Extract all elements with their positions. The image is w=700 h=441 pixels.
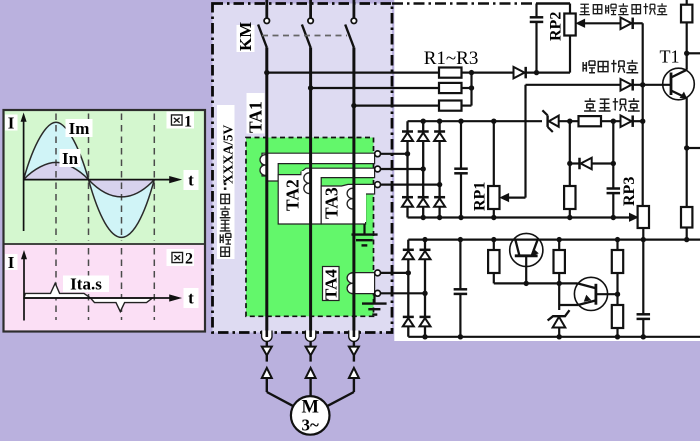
In area fill (light purple) <box>24 162 155 197</box>
overload rail / bridge1 top rail <box>408 120 543 122</box>
svg-text:Ita.s: Ita.s <box>70 275 102 294</box>
bridge2 lower diodes <box>403 316 414 319</box>
T1 collector rail + resistor R0 <box>686 0 688 70</box>
T3 base wire <box>596 293 618 295</box>
TA4 winding band <box>352 273 375 294</box>
TA4 label box <box>323 267 340 301</box>
KM linkage dashed <box>262 35 347 37</box>
bridge2 upper diodes <box>403 249 414 252</box>
short-circuit sense vertical <box>524 85 526 198</box>
resistor R7 column <box>558 240 560 250</box>
resistor R8 / R9 column <box>616 240 618 250</box>
R1-R3 common vertical <box>462 71 472 73</box>
tap to R2 <box>308 85 313 90</box>
svg-text:I: I <box>8 253 15 272</box>
svg-text:RP1: RP1 <box>472 182 489 211</box>
green transformer box <box>246 138 374 317</box>
bridge1 upper diodes <box>402 130 413 133</box>
chart1 dashed gridlines <box>55 114 57 241</box>
phase line L2 main <box>309 48 312 331</box>
TA3 coil bumps <box>347 188 353 209</box>
svg-text:TA3: TA3 <box>322 187 342 219</box>
R1-R3 resistors <box>439 68 462 78</box>
panel border <box>4 110 206 332</box>
svg-text:1: 1 <box>184 114 192 131</box>
bushing notches <box>262 331 272 342</box>
capacitor C4 <box>642 240 644 315</box>
aux diode VD4 row <box>569 121 571 186</box>
chart1 axes <box>23 119 25 231</box>
transducer box fill <box>213 4 393 333</box>
svg-text:t: t <box>188 171 194 190</box>
trip bus vertical <box>642 23 644 206</box>
svg-text:3~: 3~ <box>302 416 320 435</box>
chart1 labels <box>5 115 18 131</box>
label qianya-duanxiang-tuokou <box>579 4 589 14</box>
svg-text:XXXA/5V: XXXA/5V <box>220 125 235 184</box>
bridge2 bottom rail <box>408 336 700 338</box>
label guozai-tuokou <box>584 98 596 111</box>
svg-text:t: t <box>188 289 194 308</box>
bridge2 top rail <box>408 239 700 241</box>
TA2 coil bumps <box>304 173 310 194</box>
label tu-1 <box>171 115 182 125</box>
overload resistor R4 <box>579 116 602 126</box>
upper ground at TA3 <box>363 224 365 235</box>
capacitor C0 <box>535 4 537 18</box>
phase line L1 top <box>265 0 268 18</box>
transducer box dash-dot border <box>213 4 393 333</box>
phase feed dash-dot wire <box>392 2 537 4</box>
zener VZ1 <box>546 115 548 127</box>
svg-text:2: 2 <box>185 251 193 268</box>
T1 emitter line down <box>686 98 688 240</box>
wires terminals to bridge2 <box>381 272 409 274</box>
TA3 label box + band + tail <box>321 184 374 224</box>
svg-text:TA1: TA1 <box>246 101 266 133</box>
zener VZ2 <box>548 310 570 320</box>
Im/In filled area (cyan between curves) <box>24 122 155 237</box>
TA2 label box + band <box>278 168 374 224</box>
label duanlu-tuokou <box>583 61 595 73</box>
svg-text:RP3: RP3 <box>621 177 638 206</box>
transducer vertical label <box>217 105 235 259</box>
undervoltage diode VD1 <box>621 18 632 30</box>
panel divider <box>5 243 205 245</box>
svg-text:RP2: RP2 <box>548 12 565 41</box>
resistor R5 <box>564 186 575 209</box>
bridge2 legs <box>407 240 409 337</box>
wires terminals to bridge1 <box>381 153 408 155</box>
overload diode VD3 <box>621 115 632 127</box>
bridge2 capacitor C3 <box>459 240 461 290</box>
chart2 dashed gridlines <box>55 248 57 320</box>
svg-text:R1~R3: R1~R3 <box>424 48 479 69</box>
svg-text:KM: KM <box>236 22 255 51</box>
white relay box <box>394 0 700 341</box>
RP3 potentiometer <box>629 213 638 221</box>
phase line L2 top <box>309 0 312 18</box>
phase line L3 main <box>352 48 355 331</box>
tap to R1 <box>264 70 269 75</box>
chart2 axes <box>23 257 25 321</box>
label tu-2 <box>172 252 183 262</box>
waveform panel frame <box>5 111 205 331</box>
svg-text:I: I <box>8 114 15 133</box>
svg-text:Im: Im <box>69 119 90 138</box>
motor wires <box>266 378 268 392</box>
tap to R3 <box>351 103 356 108</box>
KM switch contacts <box>264 18 269 23</box>
TA1 label <box>247 93 265 134</box>
resistor R6 on T2 base divider <box>493 240 495 250</box>
Ita.s ribbon upper <box>24 283 91 298</box>
KM label <box>237 25 255 52</box>
KM switch blades <box>258 25 267 48</box>
svg-text:T1: T1 <box>660 47 680 67</box>
svg-text:TA2: TA2 <box>283 179 303 211</box>
TA output terminals <box>375 151 381 157</box>
TA1 winding band <box>262 153 375 181</box>
bridge1 lower diodes <box>402 196 413 199</box>
exit wires + connector arrows <box>266 341 268 346</box>
RP1 potentiometer <box>491 119 496 124</box>
transistor T3 <box>574 277 607 310</box>
phase line L1 main <box>265 48 268 331</box>
rectifier diode VD0 <box>472 71 514 73</box>
bridge1 capacitor C1 <box>460 121 462 168</box>
capacitor C2 column <box>612 121 614 188</box>
short-circuit diode VD2 <box>526 84 621 86</box>
chart1 curves Im In <box>24 122 155 237</box>
Ita.s ribbon lower <box>91 298 153 312</box>
RP2 potentiometer <box>569 4 571 14</box>
chart2 labels <box>5 254 18 270</box>
lower ground at TA4 <box>373 294 375 304</box>
phase line L3 top <box>352 0 355 18</box>
motor M <box>291 396 330 435</box>
TA4 coil bumps <box>347 273 353 294</box>
svg-text:In: In <box>62 149 79 168</box>
TA1 coil bumps <box>260 155 266 176</box>
svg-text:M: M <box>301 398 318 418</box>
bridge1 bottom rail <box>408 216 631 218</box>
T2 base row <box>494 282 578 284</box>
svg-text:TA4: TA4 <box>322 269 341 300</box>
bridge1 legs <box>406 121 408 217</box>
transistor T2 <box>510 233 543 266</box>
